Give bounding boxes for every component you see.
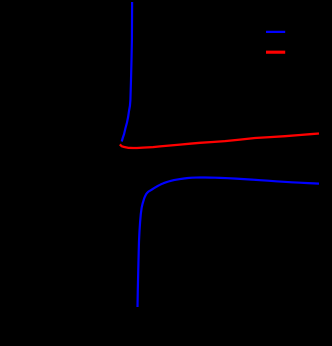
legend red line sample	[266, 51, 285, 54]
blue curve lower branch (right of vertical asymptote)	[138, 178, 320, 308]
blue curve upper branch (left of vertical asymptote)	[122, 2, 132, 142]
red curve	[120, 134, 319, 149]
legend blue line sample	[266, 31, 285, 33]
